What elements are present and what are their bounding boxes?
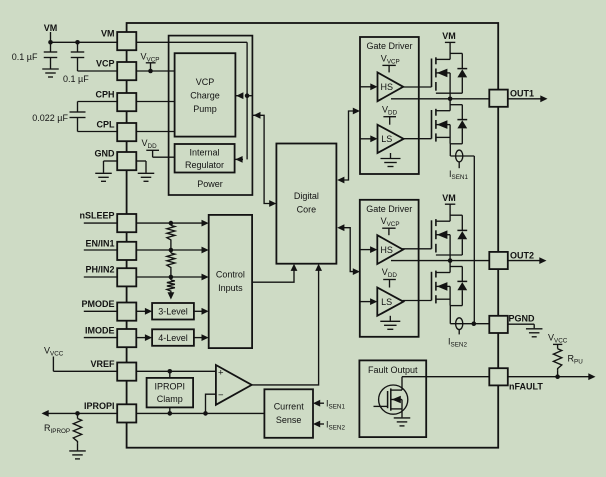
arrow into 4-Level [145, 334, 152, 341]
arrow nFAULT external [588, 373, 595, 380]
block U10 Current Sense [264, 389, 313, 438]
svg-text:LS: LS [381, 297, 392, 307]
wire OUT1 to pin right [508, 98, 541, 100]
junction IPROPI / clamp [168, 411, 173, 416]
junction OUT1 node [448, 97, 453, 102]
arrow into Digital Core bottom (control) [291, 264, 298, 271]
ground right of GND pin [136, 161, 154, 181]
pin GND [95, 149, 137, 171]
transistor Q-high 2 [432, 215, 463, 260]
supply V_VCP in U12 [381, 216, 400, 235]
wire EN/IN1 external stub [84, 249, 117, 251]
wire CPL pin stub [78, 131, 118, 133]
svg-text:LS: LS [381, 134, 392, 144]
wire fault output to nFAULT pin [402, 376, 489, 378]
junction EN/IN1 pulldown [169, 248, 174, 253]
pin VREF [90, 359, 136, 381]
svg-text:OUT1: OUT1 [510, 89, 534, 99]
junction OUT2 node [448, 258, 453, 263]
resistor pulldown R4 (PH/IN2) [167, 277, 175, 293]
wire IPROPI to Current Sense [136, 412, 264, 414]
junction IPROPI / op-amp feedback [203, 411, 208, 416]
pin PMODE [81, 299, 136, 321]
svg-text:HS: HS [380, 245, 393, 255]
supply V_DD at internal regulator [142, 138, 175, 157]
svg-text:Charge: Charge [190, 91, 220, 101]
junction ISEN to PGND [472, 321, 477, 326]
wire nFAULT external [508, 376, 590, 378]
pin VCP [96, 59, 136, 81]
capacitor C3 0.022 uF [32, 102, 85, 132]
supply V_DD in U11 [382, 104, 398, 124]
pin VM [101, 29, 136, 51]
svg-text:0.1 µF: 0.1 µF [12, 52, 38, 62]
svg-text:VREF: VREF [90, 359, 115, 369]
block U3 Internal Regulator [175, 144, 235, 173]
svg-text:Internal: Internal [189, 148, 219, 158]
arrow 4-Level into Control Inputs [202, 334, 209, 341]
arrow into charge pump [235, 92, 243, 99]
svg-text:Inputs: Inputs [218, 283, 243, 293]
wire C2 to VCP pin [78, 70, 118, 72]
block U8 IPROPI Clamp [147, 378, 194, 408]
svg-text:Fault Output: Fault Output [368, 365, 418, 375]
pin IMODE [85, 326, 136, 348]
svg-text:Pump: Pump [193, 104, 217, 114]
supply V_VCP in U11 [381, 53, 400, 72]
current source I_SEN2 [448, 318, 489, 348]
wire IPROPI external [43, 412, 117, 414]
wire LS1 output to gate [403, 138, 432, 140]
wire VM rail right of VM pin [136, 41, 247, 43]
svg-text:OUT2: OUT2 [510, 251, 534, 261]
arrow into Power [253, 112, 260, 119]
wire CPH to charge pump [136, 101, 174, 103]
pin nFAULT [489, 368, 543, 391]
capacitor C1 0.1 uF [12, 42, 57, 68]
svg-text:Gate Driver: Gate Driver [366, 204, 412, 214]
node VM (external supply label) [44, 23, 58, 42]
diode body of Q-low 1 [457, 105, 467, 144]
wire op-amp inverting input [206, 394, 216, 413]
junction nSLEEP pulldown [169, 221, 174, 226]
svg-text:VCP: VCP [96, 59, 115, 69]
wire PH/IN2 external stub [84, 276, 117, 278]
wire clamp top [169, 371, 171, 378]
pin CPH [95, 90, 136, 112]
transistor Q-low 1 [432, 99, 463, 156]
wire LS input of U12 [360, 298, 378, 305]
wire VM rail drop to charge pump [246, 42, 248, 159]
supply VM for half-bridge 2 [442, 193, 456, 221]
block U5 Control Inputs [209, 215, 252, 348]
svg-text:−: − [218, 390, 224, 401]
diode body of Q-high 2 [457, 215, 467, 255]
arrow OUT1 external [540, 95, 547, 102]
arrow 3-Level into Control Inputs [202, 308, 209, 315]
supply V_VCP at VCP pin [141, 51, 160, 73]
svg-text:0.1 µF: 0.1 µF [63, 74, 89, 84]
ground at PGND [508, 324, 543, 337]
wire LS2 output to gate [403, 300, 432, 302]
ground below LS of U11 [381, 153, 401, 167]
block U13 Fault Output [359, 360, 426, 437]
svg-text:GND: GND [95, 149, 116, 159]
buffer HS of U11 [378, 72, 404, 101]
junction VM/C1 [48, 40, 53, 45]
resistor pulldown R2 (nSLEEP) [167, 223, 175, 250]
svg-text:PH/IN2: PH/IN2 [85, 265, 114, 275]
svg-text:HS: HS [381, 82, 394, 92]
arrow into 3-Level [145, 308, 152, 315]
wire nSLEEP to Control Inputs [136, 222, 203, 224]
svg-text:EN/IN1: EN/IN1 [85, 238, 114, 248]
ground left of GND pin [95, 161, 117, 181]
current source I_SEN1 [449, 150, 474, 181]
transistor Q3 fault output [374, 377, 408, 418]
arrow OUT2 external [539, 257, 546, 264]
wire HS input of U11 [360, 83, 378, 90]
block U6 3-Level [152, 303, 194, 320]
buffer LS of U11 [378, 125, 404, 153]
svg-text:VCP: VCP [196, 77, 215, 87]
pin nSLEEP [79, 211, 136, 233]
transistor Q-low 2 [432, 261, 463, 324]
buffer HS of U12 [377, 235, 403, 264]
resistor R_PU [553, 349, 583, 377]
svg-text:Digital: Digital [294, 191, 319, 201]
arrow EN/IN1 into Control Inputs [202, 247, 209, 254]
arrow into Digital Core right (GD1) [337, 177, 344, 184]
block Power (group) [169, 36, 253, 195]
wire 3-Level to Control Inputs [194, 310, 204, 312]
wire EN/IN1 to Control Inputs [136, 249, 203, 251]
wire PH/IN2 to Control Inputs [136, 276, 203, 278]
capacitor C2 0.1 uF [63, 42, 89, 84]
wire clamp bottom [169, 407, 171, 413]
junction IPROPI / R_IPROP [75, 411, 80, 416]
wire LS input of U11 [360, 135, 378, 142]
wire Digital Core to Gate Driver 1 [342, 111, 354, 180]
wire VM rail to VM pin [51, 41, 118, 43]
svg-text:Control: Control [216, 270, 245, 280]
arrow nSLEEP into Control Inputs [202, 220, 209, 227]
svg-text:VM: VM [44, 23, 58, 33]
wire Power to Digital Core [253, 115, 271, 203]
ground below Q3 [394, 418, 411, 426]
svg-text:nFAULT: nFAULT [509, 382, 543, 392]
ground below LS of U12 [380, 316, 400, 330]
arrow into Digital Core left [269, 200, 276, 207]
supply VM for half-bridge 1 [442, 31, 456, 59]
wire HS2 output to gate [402, 248, 431, 250]
svg-text:Clamp: Clamp [157, 394, 183, 404]
supply V_DD in U12 [382, 267, 398, 287]
diode body of Q-low 2 [457, 267, 467, 306]
wire V_VCC to VREF pin [53, 370, 117, 372]
junction VM rail / charge pump feed [245, 93, 253, 98]
wire OUT1 node [391, 98, 489, 100]
pin PGND [489, 314, 535, 334]
wire I_SEN1 to PGND node [473, 156, 475, 324]
svg-text:Sense: Sense [276, 415, 302, 425]
arrow pulldown chain to ground [168, 292, 175, 299]
svg-text:IPROPI: IPROPI [84, 401, 115, 411]
wire PMODE external stub [84, 310, 117, 312]
pin PH/IN2 [85, 265, 136, 287]
block U7 4-Level [152, 329, 194, 346]
wire OUT2 to pin right [508, 260, 540, 262]
svg-text:3-Level: 3-Level [158, 307, 188, 317]
svg-text:CPH: CPH [95, 90, 114, 100]
svg-text:4-Level: 4-Level [158, 333, 188, 343]
svg-text:Gate Driver: Gate Driver [366, 41, 412, 51]
junction VREF / clamp [168, 369, 173, 374]
supply V_VCC at VREF [44, 346, 64, 372]
svg-text:Core: Core [297, 205, 317, 215]
wire HS input of U12 [360, 246, 378, 253]
svg-text:nSLEEP: nSLEEP [79, 211, 114, 221]
arrow into Gate Driver 1 [353, 108, 360, 115]
resistor pulldown R3 (EN/IN1) [167, 250, 175, 277]
op-amp U9 current sense amplifier [216, 365, 252, 405]
wire HS1 output to gate [402, 86, 431, 88]
diode body of Q-high 1 [457, 53, 467, 93]
transistor Q-high 1 [432, 53, 463, 98]
arrow PH/IN2 into Control Inputs [202, 274, 209, 281]
arrow op-amp output into Digital Core [315, 264, 322, 271]
svg-text:CPL: CPL [97, 120, 116, 130]
wire IMODE to 4-Level [136, 337, 146, 339]
ground below C1 [42, 69, 59, 77]
pin EN/IN1 [85, 238, 136, 260]
wire VREF pin to op-amp [136, 370, 216, 372]
resistor R_IPROP [44, 413, 82, 450]
block U2 VCP Charge Pump [175, 53, 236, 136]
supply V_VCC at R_PU [548, 333, 568, 349]
wire CPL to charge pump [136, 131, 174, 133]
svg-text:PMODE: PMODE [81, 299, 114, 309]
svg-text:VM: VM [442, 31, 456, 41]
pin OUT1 [489, 89, 534, 107]
pin CPL [97, 120, 137, 142]
arrow into Gate Driver 2 [353, 268, 360, 275]
wire I_SEN2 into Current Sense [313, 419, 345, 431]
block U4 Digital Core [276, 144, 336, 264]
pin OUT2 [489, 251, 534, 270]
svg-text:Current: Current [274, 402, 305, 412]
wire 4-Level to Control Inputs [194, 337, 204, 339]
wire op-amp output to Digital Core [252, 266, 319, 385]
wire I_SEN1 into Current Sense [313, 399, 345, 411]
svg-text:Regulator: Regulator [185, 160, 224, 170]
wire Digital Core to Gate Driver 2 [342, 228, 355, 272]
wire VCP pin to charge pump [136, 70, 174, 72]
block U12 Gate Driver [360, 200, 419, 337]
wire Control Inputs to Digital Core [252, 266, 294, 282]
svg-text:Power: Power [197, 179, 223, 189]
wire PMODE to 3-Level [136, 310, 146, 312]
block U11 Gate Driver [360, 37, 419, 174]
junction PH/IN2 pulldown [169, 275, 174, 280]
arrow into Digital Core right (GD2) [337, 224, 344, 231]
wire IMODE external stub [84, 337, 117, 339]
ground below R_IPROP [69, 451, 86, 459]
svg-text:PGND: PGND [509, 314, 536, 324]
svg-text:VM: VM [101, 29, 115, 39]
svg-text:0.022 µF: 0.022 µF [32, 113, 68, 123]
svg-text:VM: VM [442, 193, 456, 203]
wire nSLEEP external stub [84, 222, 117, 224]
wire OUT2 node [391, 260, 489, 262]
buffer LS of U12 [377, 288, 403, 316]
pin IPROPI [84, 401, 136, 423]
svg-text:IMODE: IMODE [85, 326, 115, 336]
arrow into internal regulator [235, 156, 243, 163]
arrow IPROPI out (left) [42, 410, 49, 417]
junction VM/C2 [75, 40, 80, 45]
svg-text:IPROPI: IPROPI [155, 382, 186, 392]
svg-text:+: + [218, 367, 224, 378]
junction nFAULT / R_PU [555, 374, 560, 379]
wire CPH pin stub [78, 101, 118, 103]
chip outline (device boundary) [127, 23, 499, 448]
